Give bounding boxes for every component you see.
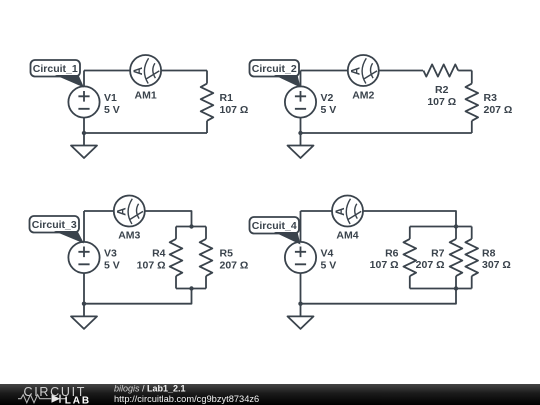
footer bar xyxy=(0,384,540,405)
svg-text:5 V: 5 V xyxy=(321,104,337,116)
junction node ground xyxy=(298,302,302,306)
label R1 107ohm xyxy=(220,92,249,116)
ground xyxy=(71,146,97,159)
wire V1 top xyxy=(83,71,85,87)
ground xyxy=(288,316,314,329)
wire top segment 3 xyxy=(458,70,472,72)
node label Circuit_3 xyxy=(30,216,85,244)
ammeter AM4 xyxy=(332,196,363,227)
svg-text:307 Ω: 307 Ω xyxy=(482,259,511,271)
resistor R6 xyxy=(404,227,417,289)
voltage source V2 xyxy=(285,86,316,117)
svg-text:207 Ω: 207 Ω xyxy=(220,260,249,272)
junction node top xyxy=(189,224,193,228)
svg-text:V3: V3 xyxy=(104,248,117,260)
svg-text:V1: V1 xyxy=(104,92,117,104)
wire top left segment xyxy=(84,210,114,212)
wire V4 bottom xyxy=(300,273,302,316)
svg-text:bilogis / Lab1_2.1: bilogis / Lab1_2.1 xyxy=(114,383,186,393)
svg-text:107 Ω: 107 Ω xyxy=(137,260,166,272)
svg-text:A: A xyxy=(117,207,129,215)
svg-text:http://circuitlab.com/cg9bzyt8: http://circuitlab.com/cg9bzyt8734z6 xyxy=(114,394,259,404)
label R8 307ohm xyxy=(482,248,511,272)
svg-text:A: A xyxy=(335,207,347,215)
svg-text:A: A xyxy=(351,67,363,75)
wire parallel bracket top xyxy=(176,226,206,228)
wire top left segment xyxy=(84,70,130,72)
svg-text:R2: R2 xyxy=(435,84,449,96)
wire top left segment xyxy=(301,210,333,212)
junction node xyxy=(298,131,302,135)
svg-text:R3: R3 xyxy=(484,92,498,104)
label V4 5V xyxy=(321,248,337,272)
ground xyxy=(288,146,314,159)
svg-text:R5: R5 xyxy=(220,248,234,260)
svg-text:R1: R1 xyxy=(220,92,234,104)
node label Circuit_2 xyxy=(250,60,301,88)
svg-text:LAB: LAB xyxy=(65,396,91,405)
svg-text:Circuit_4: Circuit_4 xyxy=(252,220,297,232)
svg-text:Circuit_2: Circuit_2 xyxy=(252,63,297,75)
wire parallel bracket bottom xyxy=(410,288,472,290)
wire parallel bracket bottom xyxy=(176,288,206,290)
resistor R7 xyxy=(450,227,463,289)
wire V1 bottom xyxy=(83,118,85,146)
wire bottom xyxy=(84,132,207,134)
svg-text:5 V: 5 V xyxy=(104,260,120,272)
resistor R8 xyxy=(465,227,478,289)
label R2 107ohm xyxy=(427,84,456,108)
svg-text:107 Ω: 107 Ω xyxy=(370,259,399,271)
wire V3 top xyxy=(83,211,85,242)
wire top segment 2 xyxy=(379,70,423,72)
svg-text:R8: R8 xyxy=(482,248,496,260)
label V3 5V xyxy=(104,248,120,272)
label R5 207ohm xyxy=(220,248,249,272)
circuit 4 group xyxy=(250,196,511,329)
resistor R2 xyxy=(423,64,458,76)
resistor R4 xyxy=(170,227,183,289)
label R3 207ohm xyxy=(484,92,513,116)
logo resistor zigzag xyxy=(18,395,51,403)
svg-text:Circuit_3: Circuit_3 xyxy=(32,219,77,231)
junction node xyxy=(82,131,86,135)
wire to bottom xyxy=(301,289,457,304)
ground xyxy=(71,316,97,329)
junction node ground xyxy=(82,302,86,306)
svg-text:V2: V2 xyxy=(321,92,334,104)
wire bottom xyxy=(301,132,472,134)
ammeter AM2 xyxy=(348,55,379,86)
label V1 5V xyxy=(104,92,120,116)
svg-text:R4: R4 xyxy=(152,248,166,260)
node label Circuit_1 xyxy=(31,60,85,88)
wire V4 top xyxy=(300,211,302,242)
ammeter AM3 xyxy=(114,196,145,227)
junction node top xyxy=(454,224,458,228)
voltage source V4 xyxy=(285,242,316,273)
wire V2 bottom xyxy=(300,118,302,146)
svg-text:5 V: 5 V xyxy=(104,104,120,116)
svg-text:V4: V4 xyxy=(321,248,334,260)
svg-text:R7: R7 xyxy=(431,248,445,260)
resistor R1 xyxy=(201,71,214,134)
node label Circuit_4 xyxy=(250,217,301,245)
circuit 1 group xyxy=(31,55,249,158)
voltage source V3 xyxy=(68,242,99,273)
svg-text:R6: R6 xyxy=(385,248,399,260)
svg-text:107 Ω: 107 Ω xyxy=(220,104,249,116)
circuit 3 group xyxy=(30,196,249,329)
label R4 107ohm xyxy=(137,248,166,272)
svg-text:AM1: AM1 xyxy=(135,90,157,102)
wire top right segment xyxy=(161,70,207,72)
wire top right segment xyxy=(145,211,192,227)
logo diode xyxy=(52,395,67,403)
wire parallel bracket top xyxy=(410,226,472,228)
label R6 107ohm xyxy=(370,248,399,272)
svg-text:AM3: AM3 xyxy=(118,230,140,242)
svg-text:A: A xyxy=(133,67,145,75)
svg-text:207 Ω: 207 Ω xyxy=(416,259,445,271)
wire top right segment xyxy=(363,211,456,227)
ammeter AM1 xyxy=(130,55,161,86)
svg-text:5 V: 5 V xyxy=(321,260,337,272)
circuit 2 group xyxy=(250,55,513,158)
resistor R3 xyxy=(466,71,479,134)
svg-text:207 Ω: 207 Ω xyxy=(484,104,513,116)
svg-text:AM4: AM4 xyxy=(336,230,358,242)
junction node bottom xyxy=(454,286,458,290)
wire V3 bottom xyxy=(83,273,85,316)
junction node bottom xyxy=(189,286,193,290)
svg-text:107 Ω: 107 Ω xyxy=(427,96,456,108)
resistor R5 xyxy=(200,227,213,289)
svg-text:AM2: AM2 xyxy=(352,90,374,102)
svg-text:Circuit_1: Circuit_1 xyxy=(33,63,78,75)
label R7 207ohm xyxy=(416,248,445,272)
wire V2 top xyxy=(300,71,302,87)
label V2 5V xyxy=(321,92,337,116)
wire to bottom xyxy=(84,289,192,304)
wire top segment 1 xyxy=(301,70,348,72)
voltage source V1 xyxy=(68,86,99,117)
